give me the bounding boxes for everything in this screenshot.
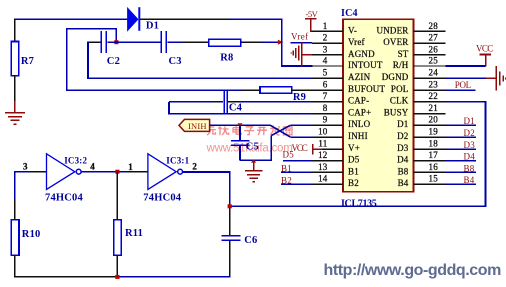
svg-text:VCC: VCC [476, 44, 494, 54]
ground below C5 [245, 160, 263, 181]
resistor R11 [114, 220, 122, 256]
svg-text:IC3:1: IC3:1 [166, 156, 189, 166]
wire CLK node vertical down to C6 [229, 172, 231, 207]
ground digital at pin 24 (rotated right) [486, 66, 506, 90]
wire D5 pin 12 [283, 160, 312, 162]
svg-text:D5: D5 [283, 150, 295, 160]
node junction CLK [228, 204, 232, 208]
power -5V port [305, 9, 319, 32]
resistor R7 [11, 42, 19, 76]
svg-text:R/H: R/H [393, 60, 409, 70]
svg-text:http://www.go-gddq.com: http://www.go-gddq.com [324, 262, 502, 279]
wire CLK bottom horizontal to oscillator [230, 205, 486, 207]
svg-text:R7: R7 [21, 56, 34, 67]
svg-text:6: 6 [323, 80, 328, 90]
node junction R11 bottom [115, 275, 119, 279]
svg-text:AGND: AGND [348, 49, 375, 59]
wire R9 to pin 6 [292, 89, 313, 91]
capacitor C4 [224, 90, 227, 114]
svg-text:B4: B4 [398, 178, 409, 188]
wire C5 bottom lead and return loop up to INLO [240, 136, 271, 161]
svg-text:D2: D2 [397, 131, 408, 141]
svg-text:22: 22 [429, 91, 438, 101]
svg-text:Vref: Vref [291, 32, 308, 42]
svg-text:12: 12 [318, 150, 327, 160]
wire R11 bottom [116, 255, 118, 277]
svg-text:2: 2 [192, 162, 197, 172]
wire left vertical to R10 [14, 172, 16, 200]
pin stubs right 28-15 [414, 31, 446, 184]
svg-text:26: 26 [429, 44, 439, 54]
svg-text:INTOUT: INTOUT [348, 60, 383, 70]
svg-text:VCC: VCC [292, 143, 309, 153]
svg-text:1: 1 [323, 21, 328, 31]
wire R10 bottom [14, 255, 16, 277]
svg-text:10: 10 [318, 127, 328, 137]
node junction arrow on INTOUT vertical [278, 40, 283, 45]
ground below R7 [5, 101, 25, 124]
wire B1 pin 13 [281, 171, 312, 173]
wire loop left vertical to BUFOUT line [66, 28, 68, 91]
wire CLK pin 22 to right vertical [446, 101, 487, 103]
wire C5 top lead [239, 125, 241, 140]
wire IC3:1 output to CLK node [183, 171, 231, 173]
power VCC port at pin 11 [292, 143, 323, 155]
svg-text:4: 4 [90, 162, 95, 172]
wire CAP+ pin 8 horizontal [169, 113, 312, 115]
wire INTOUT horizontal to pin 4 [282, 65, 313, 67]
wire C3 to R8 [167, 41, 181, 43]
pin name labels inside IC left column [348, 25, 386, 188]
wire vertical into R7 top [14, 18, 16, 41]
wire INIH to crossover [210, 124, 271, 126]
svg-text:D1: D1 [146, 21, 159, 32]
svg-text:7: 7 [323, 91, 328, 101]
svg-text:1: 1 [128, 162, 133, 172]
svg-text:D3: D3 [397, 143, 409, 153]
wire loop top over C2 [67, 28, 117, 30]
wire Vref to pin 2 [291, 42, 312, 44]
svg-text:C3: C3 [169, 56, 182, 67]
svg-text:27: 27 [429, 33, 439, 43]
diode D1 [128, 7, 141, 31]
svg-text:ICL7135: ICL7135 [341, 198, 377, 209]
svg-text:24: 24 [429, 68, 439, 78]
svg-text:C5: C5 [246, 141, 259, 152]
wire crossover diagonal INIH to INHI pin 10 [270, 125, 290, 137]
svg-text:INLO: INLO [348, 119, 371, 129]
svg-text:3: 3 [323, 44, 328, 54]
wire R11 top vertical [116, 172, 118, 220]
op-amp U1 area: ICL7135 IC4 body [343, 19, 414, 192]
inverter IC3:1 [148, 154, 183, 190]
node junction R11 top [115, 170, 119, 174]
svg-text:23: 23 [429, 80, 439, 90]
watermark line 1: 无忧电子开发网 (stroke approximation) [206, 126, 294, 155]
svg-text:UNDER: UNDER [377, 25, 409, 35]
pin numbers right 28-15 [429, 21, 439, 184]
node junction ground tap on C5 return wire [251, 159, 256, 162]
svg-text:IC4: IC4 [341, 8, 358, 19]
wire diode D1 cathode to INTOUT vertical [140, 18, 230, 20]
wire IC3:2 output to IC3:1 input [81, 171, 127, 173]
capacitor C5 [231, 141, 249, 145]
svg-text:11: 11 [318, 139, 327, 149]
svg-text:C4: C4 [229, 103, 243, 114]
capacitor C2 [101, 31, 106, 53]
svg-text:OVER: OVER [383, 37, 408, 47]
wire top rail from R7 to diode D1 [14, 18, 127, 20]
svg-text:R8: R8 [220, 52, 233, 63]
svg-text:25: 25 [429, 55, 439, 65]
svg-text:DGND: DGND [382, 72, 409, 82]
svg-text:R11: R11 [125, 228, 143, 239]
svg-text:IC3:2: IC3:2 [64, 155, 87, 165]
svg-text:17: 17 [429, 150, 439, 160]
svg-text:CAP+: CAP+ [348, 108, 371, 118]
svg-text:18: 18 [429, 139, 439, 149]
svg-text:14: 14 [318, 174, 328, 184]
wire POL pin 23 [446, 89, 476, 91]
node junction C2 right plate [114, 40, 118, 44]
svg-text:2: 2 [323, 33, 328, 43]
svg-text:B1: B1 [348, 166, 359, 176]
svg-text:-5V: -5V [306, 9, 319, 19]
svg-text:Vref: Vref [348, 37, 365, 47]
svg-text:D1: D1 [397, 119, 408, 129]
wire CAP- pin 7 right segment [228, 101, 239, 103]
wire VCC to pin 25 [446, 65, 486, 67]
node junction C5 top on INIH wire [237, 123, 242, 127]
wire INTOUT vertical [281, 18, 283, 66]
pin stubs left 1-14 [311, 31, 343, 184]
svg-text:15: 15 [429, 174, 439, 184]
inverter IC3:2 [47, 154, 82, 190]
capacitor C6 [221, 236, 240, 240]
wire pin 24 to digital ground [446, 77, 487, 79]
svg-text:INHI: INHI [348, 131, 368, 141]
capacitor C3 [161, 31, 166, 53]
resistor R8 [209, 39, 241, 46]
svg-text:16: 16 [429, 162, 439, 172]
power VCC port at pin 25 [476, 44, 494, 67]
svg-text:8: 8 [323, 103, 328, 113]
wire bracket vertical joining pin7 and pin8 nets [168, 102, 170, 115]
pin name labels inside IC right column [377, 25, 409, 188]
svg-text:POL: POL [455, 80, 472, 90]
resistor R9 [260, 87, 292, 94]
svg-text:5: 5 [323, 68, 328, 78]
wire oscillator bottom rail [14, 276, 117, 278]
svg-text:R10: R10 [22, 229, 41, 240]
svg-text:C2: C2 [107, 56, 120, 67]
svg-text:13: 13 [318, 162, 328, 172]
svg-text:D4: D4 [397, 155, 409, 165]
svg-text:3: 3 [23, 162, 28, 172]
svg-text:INIH: INIH [188, 121, 207, 131]
wire R7 bottom to ground [14, 76, 16, 101]
flag INIH [179, 119, 210, 131]
wire oscillator input horizontal [14, 171, 30, 173]
svg-text:V+: V+ [348, 143, 360, 153]
wire AZIN vertical at x=88 [87, 42, 89, 80]
wire CLK right vertical [485, 102, 487, 207]
resistor R10 [11, 220, 19, 256]
ground analog at pin 3 (rotated left) [291, 42, 312, 67]
svg-text:D5: D5 [348, 155, 360, 165]
svg-text:BUSY: BUSY [384, 108, 409, 118]
wire C2 left lead [88, 41, 100, 43]
wire C6 bottom lead [229, 240, 231, 277]
svg-text:V-: V- [348, 25, 357, 35]
svg-text:19: 19 [429, 127, 439, 137]
svg-text:C6: C6 [244, 235, 257, 246]
svg-text:CLK: CLK [390, 96, 409, 106]
svg-text:4: 4 [323, 55, 328, 65]
wire C2 to C3 [107, 41, 160, 43]
svg-text:CAP-: CAP- [348, 96, 369, 106]
svg-text:AZIN: AZIN [348, 72, 371, 82]
svg-text:9: 9 [323, 115, 328, 125]
svg-text:B8: B8 [398, 166, 409, 176]
wire CAP- pin 7 left segment [169, 101, 213, 103]
svg-text:B2: B2 [348, 178, 359, 188]
svg-text:ST: ST [398, 49, 409, 59]
svg-text:BUFOUT: BUFOUT [348, 84, 386, 94]
wire BUFOUT pin 6 horizontal left part [67, 89, 242, 91]
svg-text:POL: POL [391, 84, 409, 94]
svg-text:21: 21 [429, 103, 438, 113]
wire B2 pin 14 [281, 183, 312, 185]
wire crossover diagonal C5 loop to INLO pin 9 [271, 125, 290, 135]
svg-text:28: 28 [429, 21, 439, 31]
pin numbers left 1-14 [318, 21, 328, 184]
svg-text:20: 20 [429, 115, 439, 125]
wire AZIN pin 5 long horizontal [88, 77, 312, 79]
svg-text:74HC04: 74HC04 [45, 192, 83, 203]
wire R8 to node at INTOUT vertical [241, 41, 262, 43]
svg-text:74HC04: 74HC04 [143, 193, 181, 204]
